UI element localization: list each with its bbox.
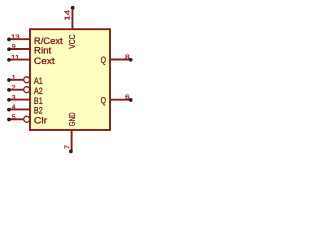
svg-text:GND: GND [67,112,77,126]
svg-text:Rint: Rint [34,46,52,56]
pin 7 end dot [69,150,73,154]
svg-text:Cext: Cext [34,56,55,66]
IC body U1 (74122 monostable) [30,29,110,130]
svg-text:13: 13 [11,34,20,41]
pin 1 invert bubble [24,77,30,83]
svg-text:7: 7 [65,145,72,149]
svg-text:A2: A2 [34,86,43,96]
svg-text:5: 5 [12,114,16,121]
pin 5 Clr wire (inverted) [7,114,47,126]
pin 4 end dot [7,108,11,112]
pin 9 Rint wire [7,44,52,56]
svg-text:B1: B1 [34,96,43,106]
pin 5 invert bubble [24,116,30,122]
pin 14 VCC wire (top) [63,6,77,49]
pin 7 GND wire (bottom) [65,112,77,153]
svg-text:8: 8 [125,54,130,61]
svg-text:11: 11 [11,54,20,61]
svg-text:6: 6 [125,94,130,101]
pin 3 B1 wire [7,94,43,106]
pin 2 A2 wire (inverted) [7,84,43,96]
svg-text:2: 2 [12,84,16,91]
pin 8 Q wire [101,54,133,65]
pin 13 R/Cext wire [7,34,63,46]
svg-text:Q: Q [101,95,106,105]
svg-text:VCC: VCC [67,35,77,49]
pin 1 end dot [7,78,11,82]
svg-text:1: 1 [12,75,16,82]
svg-text:B2: B2 [34,106,43,116]
pin 11 end dot [7,58,11,62]
pin 14 end dot [71,6,75,10]
svg-text:14: 14 [63,10,72,21]
svg-text:3: 3 [12,94,16,101]
pin 4 B2 wire [7,104,43,116]
pin 6 end dot [129,98,133,102]
pin 6 Q wire [101,94,133,105]
pin 11 Cext wire [7,54,55,66]
pin 1 A1 wire (inverted) [7,75,43,87]
svg-text:Clr: Clr [34,116,47,126]
svg-text:9: 9 [12,44,16,51]
pin 2 end dot [7,88,11,92]
pin 13 end dot [7,38,11,42]
pin 5 end dot [7,118,11,122]
pin 3 end dot [7,98,11,102]
pin 8 end dot [129,58,133,62]
svg-text:4: 4 [12,104,16,111]
svg-text:Q: Q [101,55,106,65]
svg-text:A1: A1 [34,76,43,86]
pin 9 end dot [7,47,11,51]
svg-text:R/Cext: R/Cext [34,36,63,46]
pin 2 invert bubble [24,87,30,93]
